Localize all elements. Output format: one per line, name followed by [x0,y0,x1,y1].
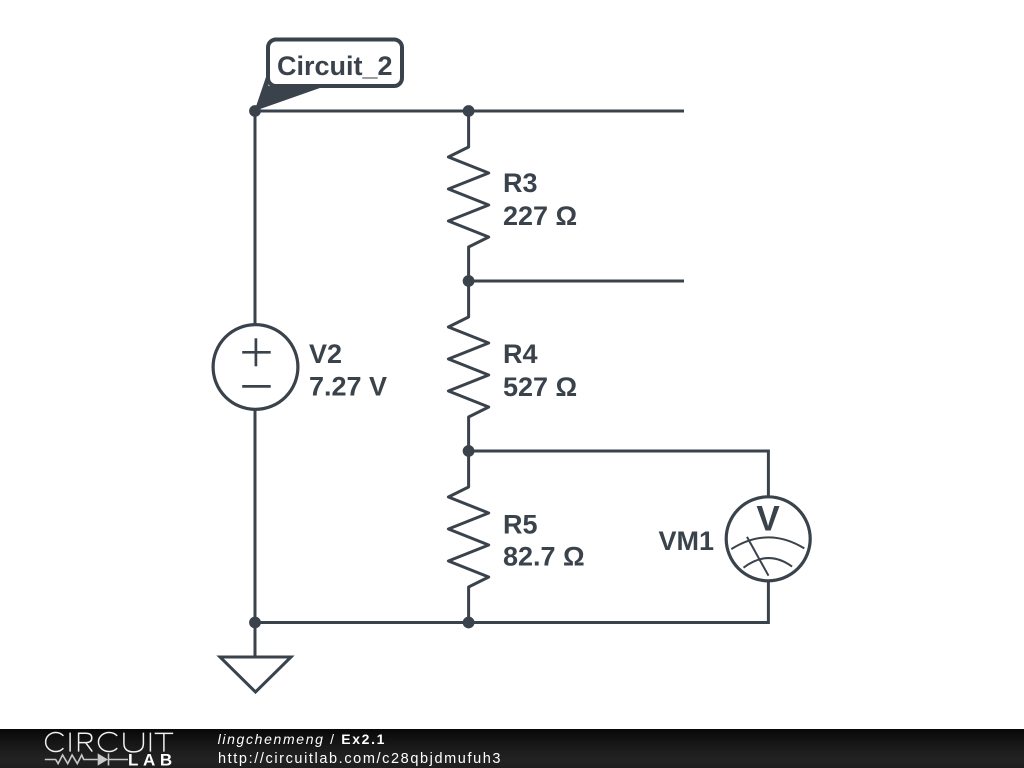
footer bar [0,729,1024,768]
svg-text:R4: R4 [503,339,538,369]
svg-text:Circuit_2: Circuit_2 [277,51,393,81]
svg-text:227 Ω: 227 Ω [503,201,577,231]
node R4-R5 [463,445,475,457]
resistor R5 [448,451,488,623]
svg-text:http://circuitlab.com/c28qbjdm: http://circuitlab.com/c28qbjdmufuh3 [218,751,502,767]
node top of R3 [463,105,475,117]
CircuitLab logo CIRCUIT letters [46,732,174,751]
svg-text:527 Ω: 527 Ω [503,372,577,402]
resistor R4 [448,281,488,451]
CircuitLab logo resistor-diode symbol [45,753,128,765]
wire middle horizontal (R3-R4 node to right) [469,280,684,283]
wire third horizontal (R4-R5 node to voltmeter) [469,451,769,497]
svg-text:82.7 Ω: 82.7 Ω [503,542,585,572]
node A top-left [249,105,261,117]
svg-text:lingchenmeng / Ex2.1: lingchenmeng / Ex2.1 [218,731,386,747]
voltage source V2 [213,325,298,410]
label R5 value [503,509,585,571]
svg-text:V2: V2 [309,339,342,369]
node bottom-left [249,617,261,629]
resistor R3 [448,111,488,281]
label R4 value [503,339,577,402]
label R3 value [503,168,577,231]
svg-text:R3: R3 [503,168,538,198]
voltmeter VM1 [726,497,810,581]
wire top horizontal [255,110,684,113]
svg-text:LAB: LAB [128,751,177,768]
label V2 value [309,339,387,401]
node R3-R4 [463,275,475,287]
ground [220,623,291,693]
svg-text:7.27 V: 7.27 V [309,371,387,401]
node junction dots [249,105,474,628]
svg-text:V: V [756,500,780,539]
wire bottom horizontal rail [255,582,768,623]
svg-text:R5: R5 [503,509,538,539]
callout Circuit_2 [255,40,403,112]
svg-text:VM1: VM1 [658,526,714,556]
wire left vertical lower (V2 bottom to bottom rail) [254,411,257,623]
node bottom of R5 [463,617,475,629]
wire left vertical upper (node A to V2 top) [254,111,257,324]
